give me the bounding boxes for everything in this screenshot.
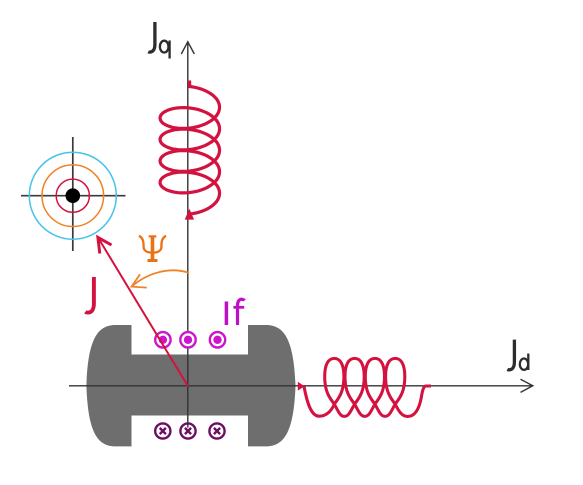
d-axis (horizontal) — [69, 379, 533, 392]
label Jd — [507, 340, 514, 370]
q-coil arrowhead — [185, 209, 194, 220]
field current dot symbol 2 — [180, 332, 195, 347]
flux-out symbol: red circle — [56, 179, 89, 212]
q-axis coil (vertical helix) — [160, 81, 219, 215]
label Jq — [148, 22, 155, 52]
label If — [226, 299, 244, 325]
field current cross symbol 1 — [155, 423, 170, 438]
helix stub top — [188, 81, 192, 89]
angle arc Psi (orange) — [132, 270, 189, 287]
rotor pole piece (gray bone shape) — [86, 325, 295, 446]
field current cross symbol 2 — [180, 423, 195, 438]
flux-out symbol: black dot — [66, 188, 81, 203]
flux-out symbol: cyan circle — [29, 152, 116, 239]
flux-out symbol: crosshair — [21, 137, 126, 251]
d-coil arrowhead — [298, 382, 305, 391]
label J — [85, 277, 94, 313]
field current dot symbol 3 — [210, 332, 225, 347]
field current cross symbol 3 — [209, 423, 224, 438]
q-axis (vertical) — [181, 42, 194, 423]
axis segment entering middle cross symbol — [187, 423, 189, 428]
helix strand — [160, 87, 219, 215]
vector J (crimson arrow from origin) — [98, 237, 188, 386]
coil strand — [304, 358, 431, 416]
d-axis coil (horizontal) — [304, 358, 431, 416]
field current dot symbol 1 — [155, 332, 170, 347]
label Psi (custom glyph) — [139, 236, 166, 261]
flux-out symbol: orange circle — [42, 165, 104, 227]
